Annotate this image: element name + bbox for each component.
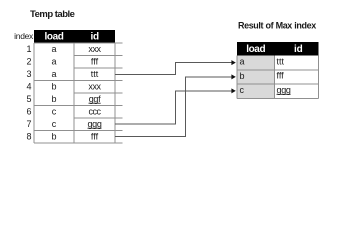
svg-text:b: b: [240, 71, 245, 81]
svg-text:ggg: ggg: [277, 85, 291, 95]
title: Temp table: [30, 9, 75, 20]
arrowhead into result row a: [231, 60, 235, 65]
wire: row 8 (b fff) to result row b: [115, 77, 232, 137]
svg-text:7: 7: [26, 119, 31, 129]
svg-text:a: a: [51, 69, 56, 79]
svg-text:1: 1: [26, 44, 31, 54]
right table row b: fff: [240, 71, 285, 81]
right table gridlines: [237, 56, 319, 99]
svg-text:b: b: [51, 131, 56, 141]
svg-text:index: index: [14, 31, 34, 41]
left table row 4: b xxx: [51, 81, 101, 91]
svg-text:b: b: [51, 81, 56, 91]
svg-text:ttt: ttt: [277, 56, 285, 66]
right table load column gray fill: [238, 56, 275, 99]
svg-text:ccc: ccc: [89, 106, 102, 116]
svg-text:a: a: [51, 44, 56, 54]
svg-text:b: b: [51, 94, 56, 104]
svg-text:6: 6: [26, 106, 31, 116]
label: index: [14, 31, 34, 41]
svg-text:4: 4: [26, 81, 31, 91]
svg-text:load: load: [45, 32, 64, 43]
svg-text:id: id: [294, 44, 303, 55]
svg-text:id: id: [90, 32, 99, 43]
wire: row 7 (c ggg) to result row c: [115, 91, 232, 124]
left table row 1: a xxx: [51, 44, 101, 54]
right table header: [237, 42, 319, 56]
left table row 6: c ccc: [52, 106, 102, 116]
svg-text:load: load: [246, 44, 265, 55]
left table row 5: b ggf underlined: [51, 94, 101, 104]
svg-text:c: c: [52, 119, 57, 129]
left table row 2: a fff: [51, 56, 98, 66]
svg-text:ttt: ttt: [91, 69, 99, 79]
title: Result of Max index: [238, 21, 316, 31]
svg-text:c: c: [52, 106, 57, 116]
svg-text:fff: fff: [277, 71, 285, 81]
svg-text:5: 5: [26, 94, 31, 104]
svg-text:c: c: [240, 85, 245, 95]
wire: row 3 (a ttt) to result row a: [115, 63, 232, 75]
left table header: [34, 30, 115, 43]
left table row 3: a ttt: [51, 69, 98, 79]
svg-text:8: 8: [26, 131, 31, 141]
left table row 7: c ggg underlined: [52, 119, 102, 129]
svg-text:a: a: [51, 56, 56, 66]
svg-text:fff: fff: [91, 131, 99, 141]
svg-text:fff: fff: [91, 56, 99, 66]
left table gridlines: [34, 43, 123, 143]
svg-text:a: a: [240, 57, 245, 67]
svg-text:2: 2: [26, 56, 31, 66]
svg-text:ggg: ggg: [87, 119, 101, 129]
arrowhead into result row b: [231, 74, 235, 79]
right table row c: ggg underlined: [240, 85, 291, 95]
svg-text:ggf: ggf: [89, 94, 101, 104]
left table row 8: b fff: [51, 131, 98, 141]
svg-text:xxx: xxx: [88, 81, 101, 91]
svg-text:Temp table: Temp table: [30, 9, 75, 20]
svg-text:xxx: xxx: [88, 44, 101, 54]
right table row a: ttt: [240, 56, 285, 66]
svg-text:3: 3: [26, 69, 31, 79]
svg-text:Result of Max index: Result of Max index: [238, 21, 316, 31]
index numbers 1-8: [26, 44, 31, 142]
arrowhead into result row c: [231, 88, 235, 93]
